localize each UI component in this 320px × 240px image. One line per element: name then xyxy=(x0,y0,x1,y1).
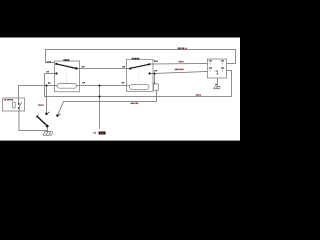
background letterbox xyxy=(0,0,240,180)
pin NFS xyxy=(208,67,211,68)
park switch lever xyxy=(56,64,76,69)
wiper motor speed switch box xyxy=(127,59,154,91)
switch contact P xyxy=(45,112,48,115)
label speed xyxy=(132,58,133,60)
label 88 park left motor xyxy=(48,82,49,83)
label SE red xyxy=(4,99,5,100)
wire breaker ground jumper xyxy=(19,108,48,131)
park switch common square xyxy=(55,63,57,65)
park mechanical link dashed xyxy=(66,68,68,84)
speed switch lever xyxy=(130,64,150,68)
wire connector to ground xyxy=(217,78,219,86)
wire switch feed drop xyxy=(46,86,48,114)
park contact 67 xyxy=(55,72,57,74)
ground left xyxy=(43,131,53,135)
label 56 park right lever xyxy=(82,66,83,67)
junction speed 67 wire xyxy=(154,73,156,75)
wire drop to off-page connector xyxy=(99,86,101,130)
junction motor bus xyxy=(99,85,101,87)
label 67 speed right xyxy=(154,70,155,71)
label off-page vn xyxy=(93,132,94,134)
label wire B colour xyxy=(175,69,176,70)
junction W1 xyxy=(46,85,48,87)
switch contact B xyxy=(56,114,59,117)
wire switch pivot to ground xyxy=(47,126,49,131)
label 56 speed left motor xyxy=(122,82,123,83)
label c riser xyxy=(154,83,155,84)
breaker lever xyxy=(19,102,22,108)
wire motor bus between armatures xyxy=(77,85,130,87)
pin Dyn xyxy=(220,67,223,68)
pin 9m label xyxy=(214,84,217,85)
label 67s speed right xyxy=(154,60,155,61)
pin ma arrow xyxy=(215,71,218,72)
speed contact 67 xyxy=(149,72,151,74)
pin 4Lj xyxy=(220,60,223,61)
breaker contact bottom xyxy=(18,107,20,109)
ground right xyxy=(213,86,220,88)
junction W2 xyxy=(99,96,101,98)
label W3 colour xyxy=(131,103,132,104)
label wiper xyxy=(7,99,8,100)
label hot in run xyxy=(178,48,179,50)
wire W3 riser and run to switch contact xyxy=(58,74,157,116)
motor armature left xyxy=(57,84,77,89)
label 67s park left xyxy=(47,61,48,62)
wire hot feed rail xyxy=(46,50,236,64)
breaker element xyxy=(13,102,16,108)
label wire A colour xyxy=(179,61,180,62)
label 56 speed left lever xyxy=(122,66,123,67)
connector module box xyxy=(207,59,226,78)
label W2 colour xyxy=(196,94,197,95)
wire park 67 contact to W2 run to connector Dyn pin xyxy=(45,71,232,97)
label 56 park right motor xyxy=(82,82,83,83)
wiper motor park switch box xyxy=(54,61,79,92)
motor armature right xyxy=(130,85,150,90)
label park xyxy=(63,59,64,61)
label 67 park left xyxy=(46,71,47,72)
speed switch common square xyxy=(148,63,150,65)
wire speed 67 to connector xyxy=(150,72,208,74)
circuit breaker box xyxy=(3,98,25,111)
wire speed 67s to connector xyxy=(150,63,207,66)
inline connector on W3 riser xyxy=(154,84,159,90)
label wiper feed colour xyxy=(38,104,39,105)
switch lever xyxy=(37,116,47,126)
speed lever arrowhead xyxy=(128,67,132,70)
speed mechanical link dashed xyxy=(138,67,140,85)
wire park lever to speed lever xyxy=(77,68,129,70)
wire circuit breaker to motor W1 xyxy=(19,86,58,105)
pin 4Lm xyxy=(208,60,211,61)
breaker contact top xyxy=(18,103,20,105)
